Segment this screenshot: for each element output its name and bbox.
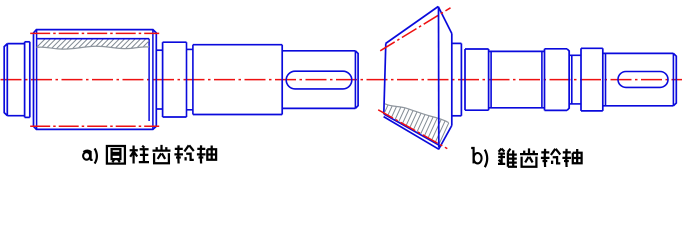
caption a char 柱 bbox=[130, 146, 149, 164]
caption b char 轴 bbox=[562, 149, 581, 167]
bevel gear b bottom root cone line bbox=[384, 114, 441, 146]
gear a right tooth-end line bbox=[148, 39, 150, 121]
shaft b keyway left chamfer line bbox=[605, 53, 607, 105]
bevel gear b hub face bbox=[460, 43, 462, 115]
bevel gear b top pitch cone line bbox=[380, 8, 450, 51]
caption a char 齿 bbox=[153, 145, 171, 163]
bevel gear b top tip cone line bbox=[386, 7, 439, 44]
bevel gear b back rim bbox=[451, 34, 453, 126]
shaft b ring groove bbox=[569, 51, 581, 108]
gear a body outline bbox=[34, 30, 157, 130]
gear a pitch line bottom bbox=[30, 125, 159, 127]
shaft b ring A bbox=[465, 49, 489, 110]
shaft a left collar bbox=[25, 42, 30, 118]
caption a char 轮 bbox=[174, 145, 193, 163]
shaft b journal bbox=[489, 51, 545, 107]
bevel gear b hatch (sectioned rim) bbox=[365, 105, 471, 155]
shaft a keyway slot bbox=[286, 71, 352, 89]
shaft b ring C bbox=[581, 48, 603, 111]
bevel gear b bottom pitch cone line bbox=[378, 110, 447, 149]
gear a root line (top) bbox=[37, 38, 150, 40]
caption a latin "a)" bbox=[83, 148, 97, 163]
caption b char 轮 bbox=[541, 149, 560, 167]
shaft b keyway cylinder bbox=[603, 53, 677, 105]
bevel gear b front rim edge bbox=[438, 7, 440, 148]
caption a char 圆 bbox=[107, 146, 125, 164]
shaft b end chamfer line bbox=[672, 53, 674, 105]
gear a pitch line top bbox=[30, 32, 159, 34]
caption b char 锥 bbox=[498, 149, 517, 167]
caption b char 齿 bbox=[520, 148, 538, 166]
gear a hatch (sectioned rim, local break-out) bbox=[32, 38, 163, 52]
gear a right chamfer line bbox=[152, 30, 154, 129]
bevel gear b back bottom edge bbox=[439, 126, 452, 150]
shaft b ring B bbox=[545, 49, 570, 111]
shaft a neck behind gear bbox=[156, 50, 162, 109]
bevel gear b break-out wavy line bbox=[385, 104, 449, 123]
bevel gear b bottom tip cone line bbox=[384, 117, 439, 150]
gear a break-out wavy line bbox=[37, 46, 150, 49]
shaft a journal bbox=[193, 45, 282, 115]
bevel gear b small-end face bbox=[384, 44, 386, 115]
shaft a bearing collar bbox=[163, 42, 187, 117]
shaft b keyway slot bbox=[618, 72, 668, 88]
shaft b journal right chamfer line bbox=[541, 51, 543, 107]
gear a left chamfer line bbox=[36, 30, 38, 129]
shaft a ring groove bbox=[187, 42, 193, 117]
bevel gear b hub shelf bbox=[452, 43, 462, 115]
shaft b journal left chamfer line bbox=[490, 51, 492, 107]
shaft a end chamfer line bbox=[354, 51, 356, 109]
caption b latin "b)" bbox=[471, 148, 487, 167]
center line (common axis of shaft a and shaft b) bbox=[1, 79, 683, 81]
shaft a left end chamfer line bbox=[6, 44, 8, 116]
bevel gear b back cone top edge bbox=[438, 7, 452, 34]
shaft a keyway cylinder bbox=[282, 51, 358, 109]
shaft a left end cylinder bbox=[4, 44, 24, 116]
caption a char 轴 bbox=[197, 145, 216, 163]
